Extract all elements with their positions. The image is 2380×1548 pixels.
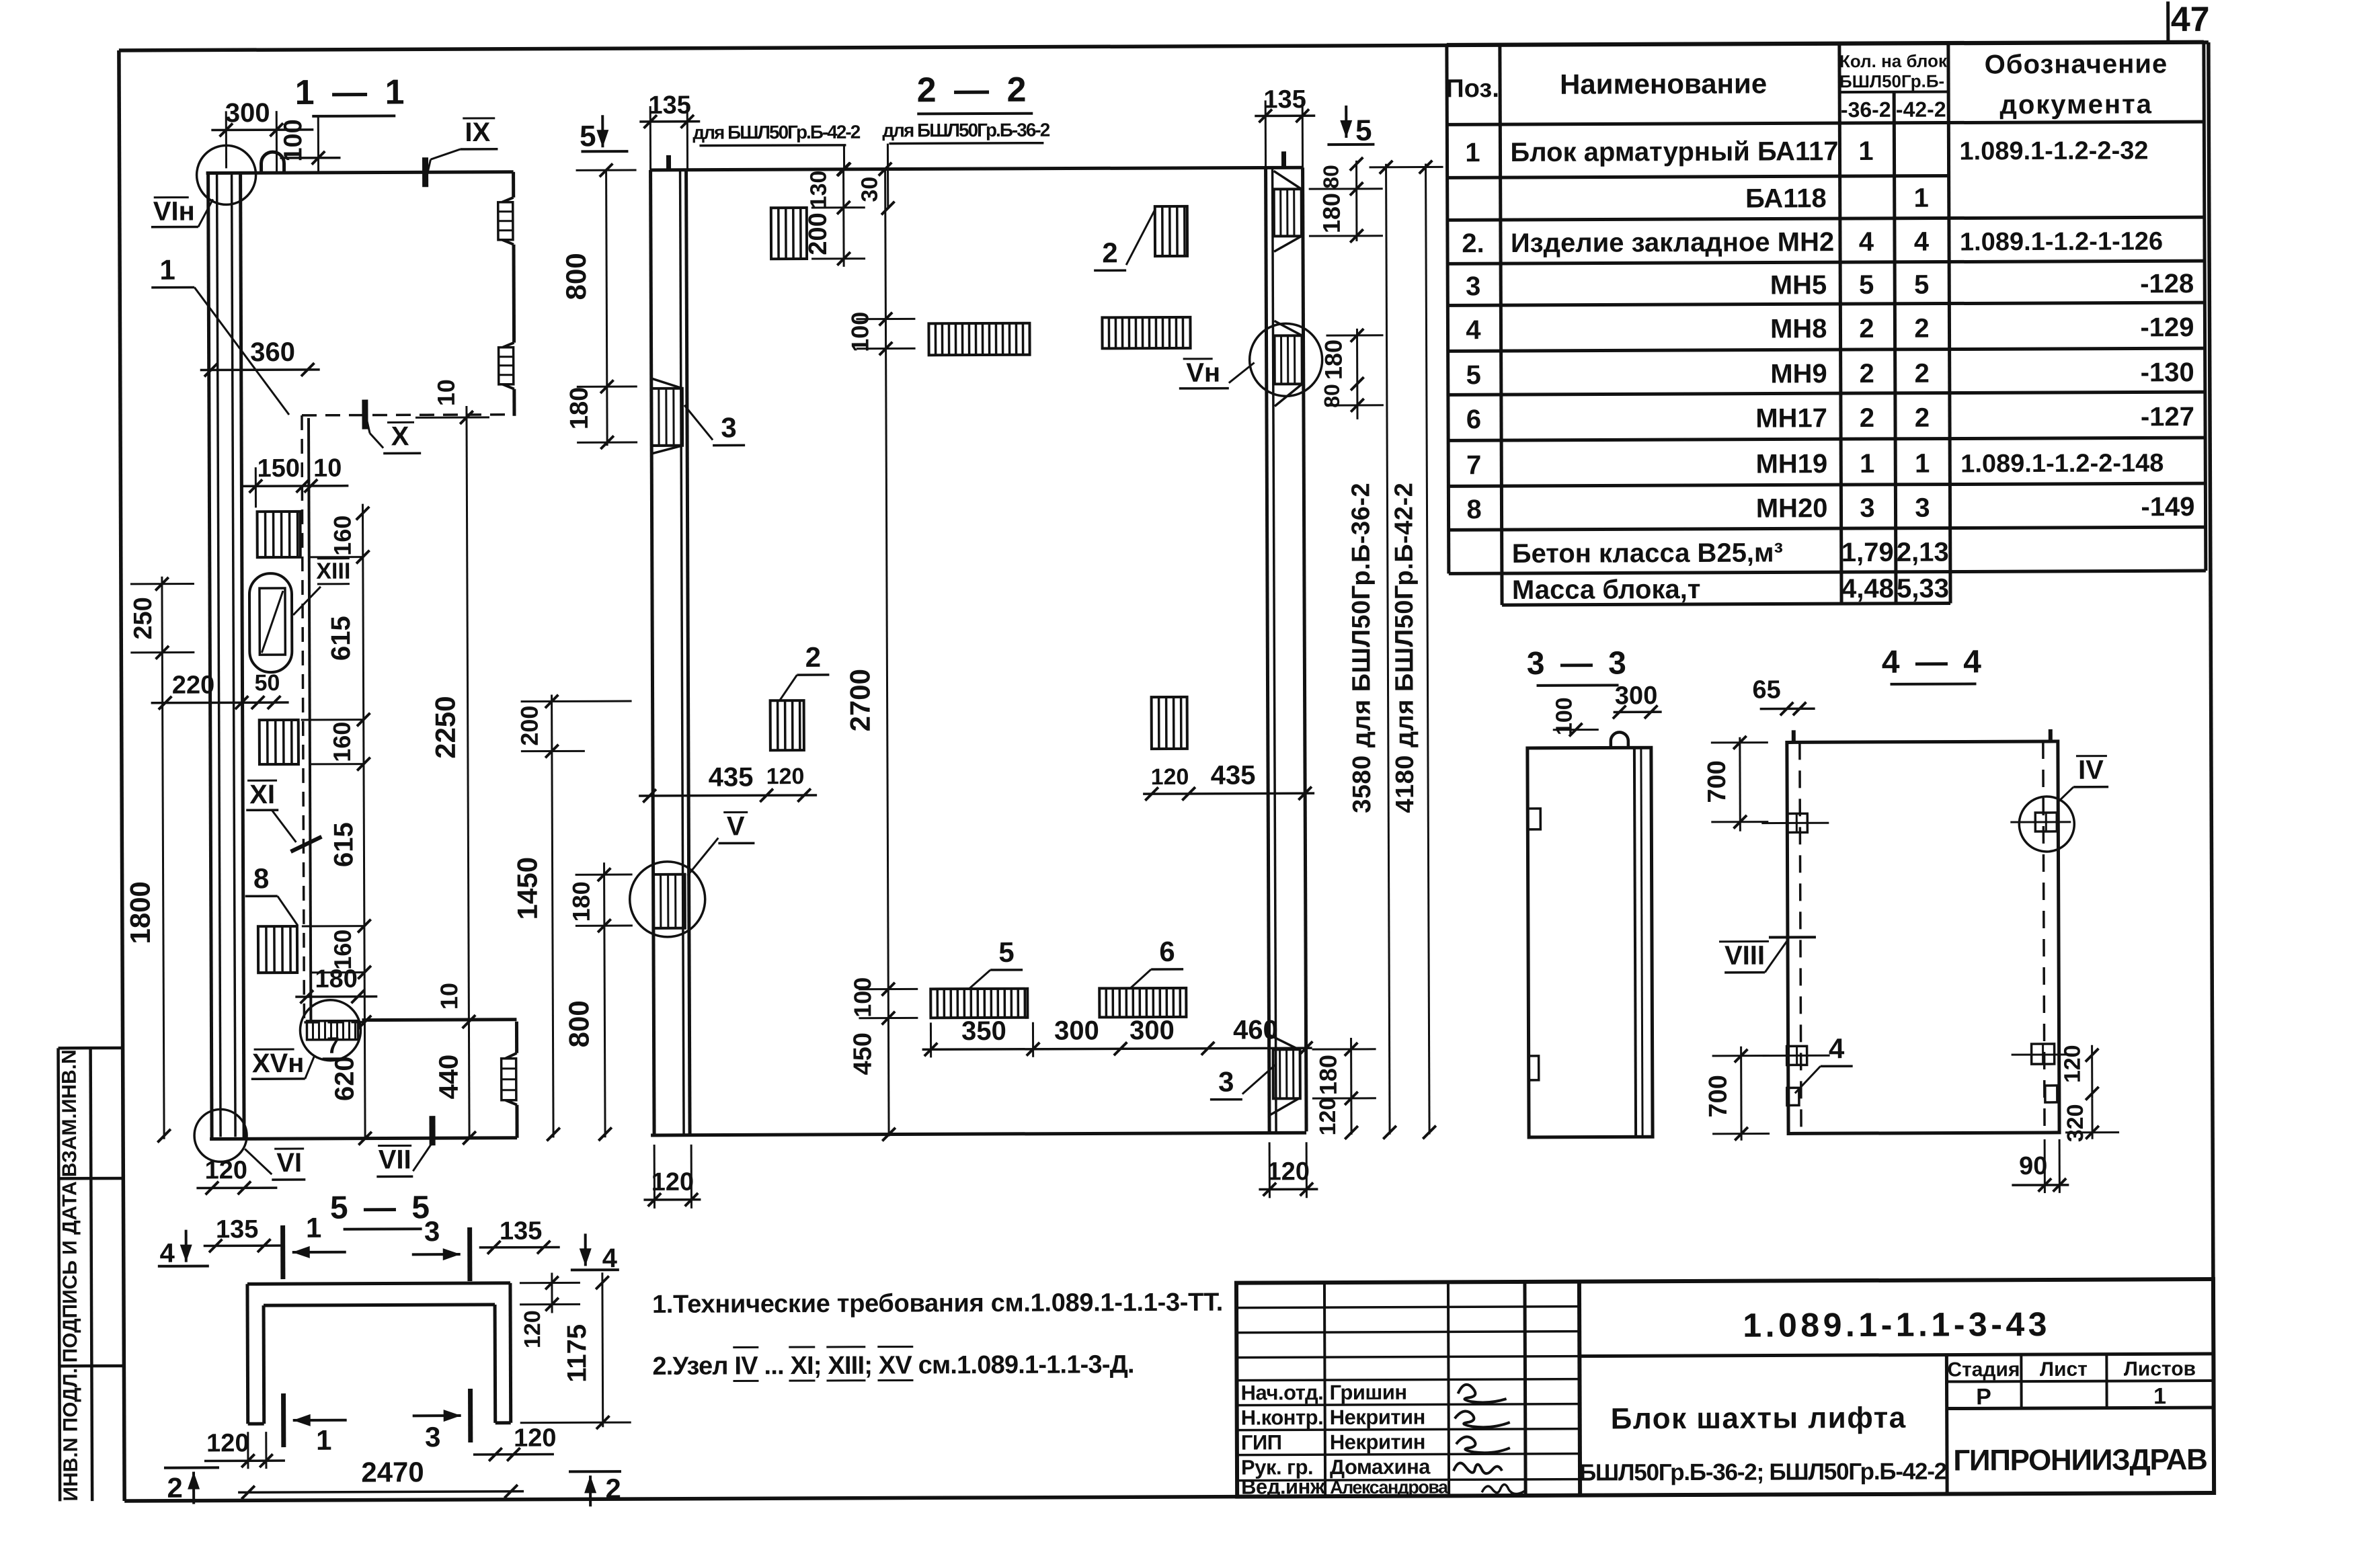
svg-text:1: 1 bbox=[1860, 449, 1874, 479]
svg-text:Р: Р bbox=[1976, 1384, 1991, 1410]
wide embed hatch bottom (pos 5) bbox=[930, 989, 1027, 1018]
svg-text:БШЛ50Гр.Б-36-2; БШЛ50Гр.Б-42-2: БШЛ50Гр.Б-36-2; БШЛ50Гр.Б-42-2 bbox=[1579, 1459, 1947, 1486]
svg-text:4,48: 4,48 bbox=[1841, 574, 1894, 604]
4-4 embed right lower bbox=[2012, 1044, 2072, 1064]
svg-text:-128: -128 bbox=[2140, 269, 2194, 298]
svg-text:10: 10 bbox=[435, 983, 463, 1010]
svg-text:2: 2 bbox=[1914, 314, 1929, 343]
svg-text:МН5: МН5 bbox=[1770, 270, 1827, 300]
left dim chain 200/1450 at x821 bbox=[511, 694, 634, 1141]
svg-text:2 — 2: 2 — 2 bbox=[917, 71, 1031, 110]
svg-text:5: 5 bbox=[1466, 360, 1481, 390]
svg-text:90: 90 bbox=[2019, 1152, 2047, 1180]
oval opening XIII bbox=[249, 573, 292, 672]
svg-text:350: 350 bbox=[961, 1016, 1006, 1046]
svg-text:180: 180 bbox=[1314, 1055, 1342, 1095]
label XI bbox=[246, 780, 321, 852]
dimension 150 and 10 bbox=[242, 454, 348, 508]
section 1-1 element outline bbox=[206, 172, 518, 1139]
svg-text:7: 7 bbox=[1466, 450, 1481, 480]
svg-text:2: 2 bbox=[1915, 403, 1930, 433]
table headers bbox=[1445, 49, 2168, 123]
svg-text:135: 135 bbox=[216, 1215, 259, 1244]
svg-text:Блок шахты лифта: Блок шахты лифта bbox=[1611, 1401, 1907, 1436]
svg-text:VIн: VIн bbox=[153, 197, 195, 227]
svg-text:120: 120 bbox=[520, 1310, 545, 1348]
svg-text:4: 4 bbox=[1914, 227, 1930, 257]
dimension 620 rotated bbox=[329, 979, 372, 1145]
svg-text:160: 160 bbox=[328, 722, 356, 762]
label Vн bbox=[1179, 358, 1255, 388]
svg-text:для БШЛ50Гр.Б-36-2: для БШЛ50Гр.Б-36-2 bbox=[882, 120, 1049, 141]
section mark 2 bottom left bbox=[164, 1467, 219, 1504]
specification table grid bbox=[1447, 42, 2206, 605]
node circle XVн with hatch strip (pos 7) bbox=[300, 1000, 360, 1061]
svg-text:1: 1 bbox=[2153, 1383, 2166, 1409]
lifting pin right wall bbox=[1281, 151, 1286, 169]
svg-text:БА118: БА118 bbox=[1745, 184, 1827, 213]
svg-text:3: 3 bbox=[1218, 1066, 1234, 1098]
lifting pin left wall bbox=[666, 155, 671, 171]
embed hatch near left wall top (130/200) bbox=[771, 208, 807, 259]
section mark 5 right bbox=[1327, 106, 1374, 147]
svg-text:160: 160 bbox=[329, 516, 356, 556]
svg-text:6: 6 bbox=[1159, 936, 1175, 967]
dimension 180/80 chain right at circle bbox=[1319, 329, 1384, 419]
wall embed hatch (pos 8) lower bbox=[258, 926, 297, 973]
svg-text:180: 180 bbox=[1320, 339, 1347, 380]
dimension 180 above XVн bbox=[295, 965, 377, 1004]
svg-text:МН8: МН8 bbox=[1770, 314, 1827, 343]
dimension 100 top rotated bbox=[279, 116, 340, 173]
svg-text:10: 10 bbox=[313, 454, 342, 483]
5-5 dimension 1175 bbox=[520, 1272, 631, 1429]
svg-text:120: 120 bbox=[2060, 1045, 2086, 1083]
svg-text:3: 3 bbox=[721, 411, 737, 443]
svg-text:Н.контр.: Н.контр. bbox=[1241, 1406, 1324, 1429]
svg-text:IV: IV bbox=[2078, 756, 2104, 785]
lifting loop on section 1-1 bbox=[261, 152, 284, 173]
4-4 lifting pins bbox=[1794, 729, 2051, 742]
svg-text:1: 1 bbox=[1465, 138, 1480, 167]
svg-text:МН19: МН19 bbox=[1755, 449, 1827, 479]
section mark 2 bottom right bbox=[569, 1471, 621, 1506]
label IX bbox=[425, 118, 498, 187]
dimension 250/1800 at x242 bbox=[123, 577, 196, 1143]
label VIн bbox=[151, 196, 213, 227]
svg-text:Изделие закладное МН2: Изделие закладное МН2 bbox=[1511, 227, 1834, 258]
svg-text:-129: -129 bbox=[2140, 313, 2194, 342]
svg-text:150: 150 bbox=[257, 454, 300, 483]
svg-text:620: 620 bbox=[330, 1056, 360, 1101]
svg-text:V: V bbox=[727, 811, 745, 841]
dimension 120 bottom left wall bbox=[643, 1145, 701, 1209]
4-4 embed left lower bbox=[1763, 1046, 1830, 1065]
svg-text:100: 100 bbox=[279, 119, 307, 162]
svg-text:1 — 1: 1 — 1 bbox=[295, 73, 409, 112]
svg-text:135: 135 bbox=[1263, 85, 1306, 114]
4-4 dimension 320 right bbox=[2063, 1099, 2119, 1143]
svg-text:ГИП: ГИП bbox=[1241, 1430, 1282, 1454]
svg-text:440: 440 bbox=[434, 1055, 464, 1100]
label VI bbox=[245, 1148, 305, 1180]
4-4 small embed left bbox=[1787, 1088, 1799, 1105]
svg-text:180: 180 bbox=[567, 881, 595, 922]
svg-text:Некритин: Некритин bbox=[1330, 1430, 1425, 1455]
svg-text:4: 4 bbox=[1859, 227, 1874, 257]
4-4 dimension 120 right bbox=[2060, 1045, 2099, 1100]
svg-text:100: 100 bbox=[846, 312, 873, 352]
svg-text:1: 1 bbox=[306, 1212, 322, 1244]
section mark 3 top bbox=[412, 1215, 470, 1281]
svg-text:2: 2 bbox=[1859, 314, 1874, 343]
svg-text:3: 3 bbox=[424, 1215, 440, 1247]
title block roles and names bbox=[1240, 1380, 1449, 1498]
label XIII bbox=[293, 559, 351, 615]
label V bbox=[687, 811, 754, 875]
svg-text:300: 300 bbox=[1129, 1016, 1175, 1045]
title block name bbox=[1579, 1401, 1947, 1486]
svg-text:120: 120 bbox=[1315, 1098, 1341, 1136]
wall hatch right bottom (pos 3) bbox=[1269, 1034, 1300, 1115]
svg-text:615: 615 bbox=[326, 616, 356, 661]
svg-text:200: 200 bbox=[804, 212, 832, 255]
svg-text:1.089.1-1.1-3-43: 1.089.1-1.1-3-43 bbox=[1743, 1305, 2051, 1344]
svg-text:Блок арматурный БА117: Блок арматурный БА117 bbox=[1510, 136, 1838, 167]
svg-text:200: 200 bbox=[516, 706, 543, 746]
svg-text:2,13: 2,13 bbox=[1897, 538, 1949, 567]
dimension 80/180 chain right top bbox=[1309, 157, 1383, 243]
svg-text:2: 2 bbox=[1860, 359, 1874, 389]
svg-text:1: 1 bbox=[159, 254, 175, 286]
svg-text:1.089.1-1.2-2-148: 1.089.1-1.2-2-148 bbox=[1960, 449, 2164, 478]
svg-text:2.: 2. bbox=[1462, 229, 1484, 258]
3-3 element bbox=[1528, 747, 1653, 1137]
section 3-3 title bbox=[1527, 645, 1630, 686]
label IV bbox=[2057, 756, 2108, 803]
wide embed hatch row middle right (pos 2) bbox=[1102, 317, 1190, 349]
svg-text:Лист: Лист bbox=[2040, 1358, 2088, 1381]
svg-text:250: 250 bbox=[129, 597, 157, 640]
dimension 120 bottom right wall bbox=[1259, 1142, 1318, 1198]
wall embed hatch middle bbox=[260, 720, 299, 764]
svg-text:XI: XI bbox=[249, 780, 275, 809]
title block stage/sheet bbox=[1947, 1358, 2196, 1410]
embed hatch top right (pos 2) bbox=[1155, 206, 1187, 256]
title block grid bbox=[1236, 1279, 2214, 1497]
svg-text:Домахина: Домахина bbox=[1330, 1455, 1431, 1479]
header для БШЛ50Гр.Б-42-2 bbox=[692, 122, 861, 177]
svg-text:80: 80 bbox=[1319, 165, 1343, 189]
dimension 360 bbox=[200, 337, 320, 376]
node circle V with wall hatch bbox=[630, 862, 705, 937]
section 4-4 title bbox=[1882, 644, 1985, 684]
label VIII bbox=[1719, 937, 1816, 973]
svg-text:135: 135 bbox=[500, 1217, 543, 1246]
svg-text:120: 120 bbox=[1151, 764, 1189, 790]
svg-text:2: 2 bbox=[1860, 403, 1874, 433]
svg-text:1.089.1-1.2-1-126: 1.089.1-1.2-1-126 bbox=[1960, 227, 2163, 256]
4-4 dimension 700 bottom bbox=[1704, 1047, 1770, 1141]
node circle Vн bbox=[1249, 323, 1322, 396]
left margin stamp boxes bbox=[58, 1048, 125, 1501]
svg-text:300: 300 bbox=[225, 98, 270, 128]
5-5 dimension 120 rotated right bbox=[520, 1272, 580, 1348]
3-3 lifting loop bbox=[1611, 732, 1628, 747]
svg-text:документа: документа bbox=[1999, 89, 2153, 120]
svg-text:VIII: VIII bbox=[1724, 941, 1765, 971]
svg-text:5: 5 bbox=[1914, 270, 1929, 300]
svg-text:100: 100 bbox=[848, 977, 876, 1018]
svg-text:1: 1 bbox=[1915, 449, 1930, 479]
svg-text:-127: -127 bbox=[2141, 402, 2194, 432]
svg-text:4180 для БШЛ50Гр.Б-42-2: 4180 для БШЛ50Гр.Б-42-2 bbox=[1390, 483, 1419, 813]
svg-text:Стадия: Стадия bbox=[1947, 1358, 2020, 1381]
svg-text:Листов: Листов bbox=[2124, 1358, 2196, 1380]
embed hatch right middle (pos 2) lower bbox=[1152, 697, 1187, 749]
svg-text:Масса блока,т: Масса блока,т bbox=[1512, 575, 1701, 605]
wall hatch right top bbox=[1274, 171, 1302, 251]
svg-text:Вед.инж: Вед.инж bbox=[1241, 1475, 1326, 1498]
svg-text:-149: -149 bbox=[2141, 492, 2194, 522]
svg-text:5,33: 5,33 bbox=[1897, 574, 1949, 604]
dimension 120 bottom of 1-1 bbox=[196, 1156, 277, 1194]
5-5 dimension 120 bottom left bbox=[204, 1429, 285, 1469]
svg-text:-36-2: -36-2 bbox=[1841, 97, 1891, 122]
wall hatch right in circle Vн bbox=[1274, 321, 1302, 406]
svg-text:700: 700 bbox=[1703, 760, 1731, 803]
label 2 middle bbox=[779, 641, 829, 700]
svg-text:47: 47 bbox=[2171, 0, 2210, 39]
4-4 dimension 700 top bbox=[1703, 736, 1769, 831]
svg-text:IX: IX bbox=[465, 118, 490, 147]
svg-text:435: 435 bbox=[709, 762, 754, 792]
signatures bbox=[1454, 1385, 1525, 1494]
svg-text:5 — 5: 5 — 5 bbox=[330, 1190, 433, 1226]
left dim chain 180/800 at x898 bbox=[563, 862, 634, 1141]
svg-text:360: 360 bbox=[250, 337, 295, 367]
label 5 bbox=[969, 936, 1023, 989]
technical note 2 bbox=[652, 1346, 1134, 1381]
section mark 1 top bbox=[283, 1212, 346, 1279]
section 2-2 title bbox=[917, 71, 1033, 114]
svg-text:2.Узел IV ... XI; XIII; XV см.: 2.Узел IV ... XI; XIII; XV см.1.089.1-1.… bbox=[652, 1350, 1134, 1381]
svg-text:7: 7 bbox=[327, 1033, 340, 1059]
dimension 350/300/300/460 bbox=[922, 1015, 1312, 1057]
svg-text:Кол. на блок: Кол. на блок bbox=[1839, 51, 1948, 72]
svg-text:3 — 3: 3 — 3 bbox=[1527, 645, 1630, 682]
svg-text:МН20: МН20 bbox=[1756, 493, 1828, 523]
label VII bbox=[376, 1116, 433, 1176]
svg-text:220: 220 bbox=[172, 671, 215, 699]
svg-text:1: 1 bbox=[1914, 184, 1929, 213]
svg-text:1800: 1800 bbox=[124, 881, 156, 944]
svg-text:4 — 4: 4 — 4 bbox=[1882, 644, 1985, 680]
4-4 embed right upper bbox=[2010, 813, 2071, 831]
svg-text:Поз.: Поз. bbox=[1445, 75, 1499, 103]
svg-text:120: 120 bbox=[651, 1168, 695, 1196]
svg-text:10: 10 bbox=[432, 379, 460, 406]
svg-text:460: 460 bbox=[1233, 1015, 1278, 1045]
header для БШЛ50Гр.Б-36-2 bbox=[881, 120, 1050, 215]
svg-text:2470: 2470 bbox=[361, 1456, 424, 1488]
svg-text:2250: 2250 bbox=[430, 696, 461, 759]
svg-text:8: 8 bbox=[253, 862, 270, 894]
dimension 135 left wall bbox=[639, 91, 700, 170]
dimension 220 and 50 bbox=[151, 670, 288, 710]
label 6 bbox=[1130, 936, 1183, 988]
svg-text:800: 800 bbox=[563, 1000, 594, 1047]
svg-text:120: 120 bbox=[1267, 1157, 1310, 1186]
svg-text:3: 3 bbox=[1915, 493, 1930, 523]
svg-text:120: 120 bbox=[206, 1429, 249, 1457]
svg-text:VI: VI bbox=[276, 1148, 302, 1178]
svg-text:ВЗАМ.ИНВ.N: ВЗАМ.ИНВ.N bbox=[58, 1049, 81, 1177]
label 8 bbox=[245, 862, 298, 926]
svg-text:Нач.отд.: Нач.отд. bbox=[1240, 1381, 1323, 1404]
page number 147 bbox=[2168, 0, 2210, 40]
svg-text:VII: VII bbox=[379, 1145, 411, 1174]
section mark 5 left bbox=[580, 115, 628, 153]
dimension chain 160-615-160-615-160 at x541 bbox=[300, 504, 371, 979]
svg-text:1,79: 1,79 bbox=[1841, 538, 1894, 567]
section 5-5 title bbox=[330, 1190, 433, 1229]
table rows bbox=[1462, 135, 2195, 605]
svg-text:2700: 2700 bbox=[844, 669, 875, 732]
long dim line 4180 для БШЛ50Гр.Б-42-2 bbox=[1370, 161, 1447, 1139]
svg-text:Гришин: Гришин bbox=[1329, 1381, 1406, 1404]
svg-text:МН17: МН17 bbox=[1755, 403, 1827, 433]
svg-text:135: 135 bbox=[648, 91, 691, 120]
dimension 135 right wall bbox=[1255, 85, 1315, 167]
svg-text:3: 3 bbox=[1860, 493, 1874, 523]
dimension 130/200 chain bbox=[804, 163, 866, 267]
svg-text:XIII: XIII bbox=[316, 559, 350, 584]
svg-text:Vн: Vн bbox=[1186, 358, 1220, 388]
svg-text:4: 4 bbox=[160, 1239, 175, 1268]
svg-text:4: 4 bbox=[1466, 315, 1481, 345]
label 2 top right bbox=[1094, 210, 1155, 270]
5-5 dimension 120 bottom right bbox=[473, 1424, 557, 1461]
svg-text:2: 2 bbox=[605, 1473, 621, 1504]
svg-text:180: 180 bbox=[565, 387, 594, 430]
3-3 embeds on left edge bbox=[1528, 809, 1542, 1080]
dimension 300 top bbox=[211, 98, 313, 172]
svg-text:3: 3 bbox=[1466, 272, 1480, 301]
5-5 dimension 135 left bbox=[204, 1215, 284, 1252]
section mark 4 top left bbox=[158, 1229, 209, 1268]
svg-text:Бетон класса В25,м³: Бетон класса В25,м³ bbox=[1512, 538, 1783, 569]
node circle VI bottom bbox=[194, 1109, 247, 1162]
wall hatch left (pos 3) with taper bbox=[651, 378, 682, 454]
5-5 dimension 135 right bbox=[479, 1217, 560, 1254]
svg-text:300: 300 bbox=[1054, 1016, 1099, 1045]
dimension 800/180 left at x905 bbox=[560, 163, 638, 449]
svg-text:615: 615 bbox=[329, 822, 358, 867]
svg-text:4: 4 bbox=[1829, 1032, 1845, 1064]
svg-text:МН9: МН9 bbox=[1770, 359, 1827, 389]
dimension 180/120 right bottom bbox=[1312, 1038, 1377, 1139]
svg-text:50: 50 bbox=[255, 670, 280, 696]
svg-text:1.089.1-1.2-2-32: 1.089.1-1.2-2-32 bbox=[1959, 136, 2148, 165]
wide embed hatch row middle left (pos 2) bbox=[928, 323, 1029, 356]
section 1-1 title bbox=[295, 73, 409, 116]
svg-text:Александрова: Александрова bbox=[1330, 1477, 1449, 1498]
svg-text:1: 1 bbox=[316, 1424, 332, 1456]
embed hatch left middle (pos 2) lower bbox=[770, 700, 804, 750]
svg-text:-130: -130 bbox=[2141, 358, 2194, 387]
svg-text:300: 300 bbox=[1615, 682, 1658, 710]
svg-text:3: 3 bbox=[425, 1421, 441, 1453]
2-2 right wall bbox=[1266, 167, 1307, 1131]
svg-text:БШЛ50Гр.Б-: БШЛ50Гр.Б- bbox=[1839, 71, 1944, 92]
svg-text:435: 435 bbox=[1211, 760, 1256, 790]
svg-text:450: 450 bbox=[848, 1032, 877, 1075]
long dim line 3580 для БШЛ50Гр.Б-36-2 bbox=[1346, 161, 1396, 1139]
node circle VIн bbox=[196, 145, 255, 204]
svg-text:800: 800 bbox=[560, 253, 592, 300]
svg-text:1175: 1175 bbox=[562, 1324, 592, 1383]
svg-text:ГИПРОНИИЗДРАВ: ГИПРОНИИЗДРАВ bbox=[1953, 1443, 2207, 1477]
svg-text:X: X bbox=[391, 421, 409, 451]
svg-text:180: 180 bbox=[1318, 193, 1345, 233]
label 4 bbox=[1795, 1032, 1853, 1093]
svg-text:5: 5 bbox=[1859, 270, 1874, 300]
dimension 100 upper middle bbox=[846, 311, 915, 355]
4-4 dimension 90 bbox=[2012, 1139, 2069, 1193]
svg-text:6: 6 bbox=[1466, 405, 1481, 434]
svg-text:180: 180 bbox=[315, 965, 358, 993]
svg-text:5: 5 bbox=[998, 936, 1015, 968]
dimension 435/120 left bbox=[639, 762, 817, 803]
svg-text:Некритин: Некритин bbox=[1330, 1406, 1425, 1430]
3-3 dimension 300 bbox=[1613, 682, 1662, 719]
svg-text:120: 120 bbox=[204, 1156, 247, 1184]
node circle IV bbox=[2019, 797, 2074, 852]
svg-text:2: 2 bbox=[1915, 359, 1930, 389]
dimension 120/435 right bbox=[1143, 760, 1314, 801]
svg-text:2: 2 bbox=[167, 1472, 183, 1504]
2-2 left wall bbox=[647, 167, 1307, 1135]
section mark 4 top right bbox=[571, 1233, 619, 1273]
4-4 small embed right bbox=[2045, 1086, 2057, 1102]
svg-text:XVн: XVн bbox=[252, 1049, 305, 1078]
svg-text:2: 2 bbox=[805, 641, 822, 673]
5-5 dimension 2470 bbox=[238, 1456, 524, 1499]
svg-text:160: 160 bbox=[329, 930, 356, 970]
label X bbox=[365, 399, 421, 453]
svg-text:Наименование: Наименование bbox=[1560, 68, 1767, 100]
wide embed hatch bottom (pos 6) bbox=[1099, 988, 1186, 1017]
wall embed hatch (pos 8) upper bbox=[257, 512, 301, 557]
label 1 leader bbox=[151, 253, 289, 415]
svg-text:1: 1 bbox=[1858, 136, 1873, 166]
svg-text:ПОДПИСЬ И ДАТА: ПОДПИСЬ И ДАТА bbox=[58, 1181, 81, 1362]
svg-text:30: 30 bbox=[857, 177, 883, 202]
3-3 dimension 100 bbox=[1552, 697, 1599, 736]
label 3 left bbox=[684, 405, 745, 445]
label 3 right bottom bbox=[1210, 1065, 1275, 1099]
dimension 2250/10/440 line at x696 bbox=[415, 379, 492, 1145]
section mark 3 bottom bbox=[413, 1389, 471, 1453]
svg-text:-42-2: -42-2 bbox=[1896, 97, 1946, 122]
4-4 embed left upper bbox=[1761, 813, 1829, 832]
svg-text:1.Технические требования см.1.: 1.Технические требования см.1.089.1-1.1-… bbox=[652, 1289, 1223, 1319]
section mark 1 bottom bbox=[284, 1393, 347, 1456]
svg-text:2: 2 bbox=[1102, 237, 1118, 268]
4-4 dimension 65 bbox=[1752, 676, 1815, 715]
svg-text:1450: 1450 bbox=[511, 857, 543, 920]
